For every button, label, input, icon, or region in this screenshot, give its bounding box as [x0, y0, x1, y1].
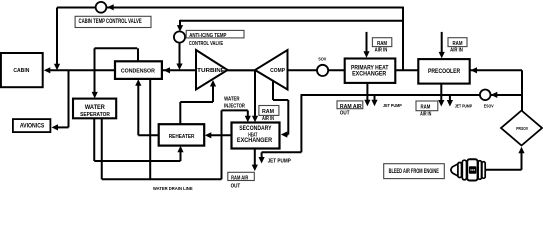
svg-text:ESOV: ESOV — [484, 103, 494, 108]
svg-text:TURBINE: TURBINE — [197, 68, 225, 74]
svg-text:RAM AIR: RAM AIR — [340, 104, 362, 110]
svg-text:CONTROL VALVE: CONTROL VALVE — [189, 41, 223, 47]
svg-text:RAM: RAM — [453, 41, 463, 47]
svg-text:SECONDARY: SECONDARY — [239, 126, 271, 132]
svg-text:WATER DRAIN LINE: WATER DRAIN LINE — [153, 186, 193, 192]
svg-text:WATER: WATER — [85, 104, 105, 111]
svg-text:AIR IN: AIR IN — [450, 47, 463, 53]
svg-text:RAM: RAM — [262, 109, 274, 115]
svg-text:SEPERATOR: SEPERATOR — [80, 112, 110, 118]
svg-text:REHEATER: REHEATER — [169, 134, 195, 140]
svg-text:OUT: OUT — [231, 184, 241, 190]
svg-text:AIR IN: AIR IN — [375, 47, 388, 53]
svg-text:JET PUMP: JET PUMP — [268, 158, 291, 164]
svg-text:OUT: OUT — [340, 110, 350, 116]
svg-text:SOV: SOV — [318, 56, 326, 61]
svg-text:AIR IN: AIR IN — [420, 112, 431, 118]
svg-text:JET PUMP: JET PUMP — [383, 103, 402, 108]
svg-text:COMP: COMP — [270, 68, 285, 74]
svg-text:CABIN TEMP CONTROL VALVE: CABIN TEMP CONTROL VALVE — [79, 18, 142, 25]
svg-text:CABIN: CABIN — [13, 68, 29, 74]
svg-text:RAM: RAM — [421, 105, 431, 111]
svg-text:EXCHANGER: EXCHANGER — [237, 137, 273, 144]
svg-text:RAM: RAM — [377, 41, 387, 47]
svg-text:PRECOOLER: PRECOOLER — [428, 68, 461, 75]
svg-text:PRSOV: PRSOV — [516, 126, 528, 131]
svg-text:AIR IN: AIR IN — [262, 116, 274, 122]
svg-text:RAM AIR: RAM AIR — [231, 175, 248, 181]
svg-text:WATER: WATER — [224, 96, 240, 102]
svg-text:INJECTOR: INJECTOR — [224, 104, 245, 110]
svg-text:EXCHANGER: EXCHANGER — [352, 71, 386, 78]
svg-text:AVIONICS: AVIONICS — [20, 124, 45, 130]
svg-text:CONDENSOR: CONDENSOR — [121, 69, 156, 75]
svg-text:JET PUMP: JET PUMP — [455, 103, 473, 108]
svg-text:BLEED AIR FROM ENGINE: BLEED AIR FROM ENGINE — [389, 168, 439, 175]
svg-text:ANTI-ICING TEMP: ANTI-ICING TEMP — [189, 33, 227, 39]
